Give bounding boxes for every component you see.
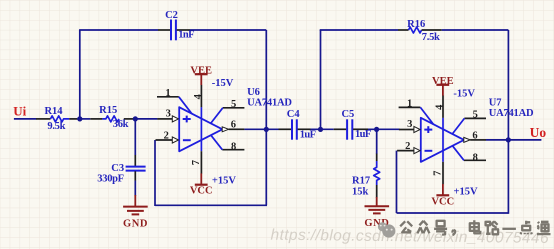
U7 pin 4 (V-) [442,95,444,117]
power VEE for U7 [432,76,454,96]
designator C2 [165,10,178,21]
op-amp U7 triangle body [421,118,464,162]
svg-text:+15V: +15V [212,176,236,187]
wire Ui to R14 [14,118,36,120]
wire U7 output to Uo [486,139,541,141]
wire feedback bottom [155,204,267,206]
svg-text:5: 5 [231,99,236,110]
pin number 8 [231,142,236,153]
svg-text:Ui: Ui [13,104,26,119]
capacitor C5 [334,119,368,139]
pin number 5 [473,109,478,120]
wire feedback vertical (C2/out/pin2 bus) [265,30,267,205]
wire feedback up to U6 pin2 [154,140,156,206]
value 1uF (C5) [355,129,371,140]
svg-text:3: 3 [407,119,412,130]
svg-text:+15V: +15V [454,186,478,197]
svg-text:-15V: -15V [453,89,475,100]
U6 pin 2 inverting input [156,137,179,143]
svg-text:GND: GND [123,218,148,229]
designator C5 [341,109,354,120]
wire node A up to C2 [79,30,81,119]
watermark url text [270,227,549,247]
junction node B (R15/C3 tap) [133,116,138,121]
U7 pin 6 output [464,137,486,142]
resistor R17 [374,154,380,198]
svg-text:1uF: 1uF [300,130,316,141]
svg-text:8: 8 [473,152,478,163]
value 9.5k [47,121,65,132]
svg-text:R14: R14 [44,106,63,117]
U7 pin 3 non-inverting input [399,126,420,132]
U6 pin 8 (NC) [211,135,245,150]
svg-text:2: 2 [164,130,169,141]
U7 pin 8 (NC) [453,146,487,161]
svg-text:1nF: 1nF [178,30,194,41]
label -15V [212,78,234,89]
ground GND (stage 2) [364,197,389,229]
svg-text:15k: 15k [352,187,369,198]
wire node B down to C3 [134,119,136,155]
svg-text:C5: C5 [341,109,354,120]
wire U6 pin6 to C4 [244,128,278,130]
U6 plus input marker [183,116,191,123]
pin number 5 [231,99,236,110]
wire C2 left [79,29,158,31]
svg-text:VCC: VCC [190,186,213,197]
U6 pin 7 (V+) [200,151,202,173]
U7 internal rail line (pins 4-7) [442,118,444,162]
wire R14 to R15 [77,118,90,120]
pin number 3 [166,109,171,120]
svg-text:36k: 36k [113,119,129,130]
pin number 2 [164,130,169,141]
value 15k [352,187,369,198]
designator C4 [287,109,301,120]
junction node E (R17 tap) [374,127,379,132]
svg-text:R16: R16 [407,19,425,30]
designator R16 [407,19,425,30]
svg-text:7: 7 [191,160,202,165]
watermark text dian-lu-yi-dian-tong (circuit one spot) [470,220,551,234]
label +15V [212,176,236,187]
pin number 6 [472,130,477,141]
pin number 1 [165,88,170,99]
value 7.5k [422,32,440,43]
svg-text:3: 3 [166,109,171,120]
svg-text:UA741AD: UA741AD [489,108,534,119]
power VCC for U7 [431,184,454,207]
label +15V [454,186,478,197]
wire U7 pin2 feedback left [396,151,398,213]
resistor R15 [90,116,133,122]
pin number 4 [435,104,446,110]
wire U7 feedback bottom [397,212,509,214]
U6 internal rail line (pins 4-7) [200,107,202,151]
svg-text:C4: C4 [287,109,301,120]
value 1nF [178,30,194,41]
svg-text:8: 8 [231,142,236,153]
power VCC for U6 [190,173,213,196]
U7 pin 7 (V+) [442,162,444,184]
U6 pin 5 (offset) [211,108,245,124]
pin number 6 [231,120,236,131]
wire C4 to C5 [311,128,334,130]
svg-text:VEE: VEE [190,65,212,76]
part type UA741AD (U6) [247,97,292,108]
wire node D up to R16 [320,30,322,129]
pin number 7 [191,160,202,165]
U6 pin 3 non-inverting input [157,116,178,122]
svg-text:6: 6 [231,120,236,131]
svg-text:R15: R15 [99,105,117,116]
label -15V [453,89,475,100]
svg-text:VCC: VCC [431,196,454,207]
net label Uo [530,125,547,140]
svg-text:VEE: VEE [432,76,454,87]
svg-text:330pF: 330pF [97,173,124,184]
capacitor C4 [279,119,311,139]
pin number 8 [473,152,478,163]
U6 pin 1 (offset) [157,97,192,114]
pin number 7 [433,171,444,176]
part type UA741AD (U7) [489,108,534,119]
svg-text:6: 6 [472,130,477,141]
svg-text:4: 4 [193,93,204,99]
ground GND (stage 1) [123,195,148,229]
svg-text:2: 2 [405,141,410,152]
svg-text:7: 7 [433,171,444,176]
svg-text:5: 5 [473,109,478,120]
wire R16 down to output node [507,30,509,140]
designator R14 [44,106,63,117]
power VEE for U6 [190,65,212,85]
U7 pin 5 (offset) [452,118,486,134]
value 1uF (C4) [300,130,316,141]
pin number 1 [407,99,412,110]
wire C3 to GND [134,181,136,196]
wire R16 right [442,29,509,31]
wire R15 to U6 pin3 [133,118,157,120]
pin number 2 [405,141,410,152]
svg-text:-15V: -15V [212,78,234,89]
pin number 3 [407,119,412,130]
pin number 4 [193,93,204,99]
U6 pin 6 output [222,127,244,132]
svg-text:1: 1 [407,99,412,110]
resistor R14 [36,116,77,122]
designator R17 [352,176,370,187]
designator C3 [111,163,124,174]
junction node F (U7 output) [506,137,511,142]
wire node E down to R17 [376,129,378,154]
junction node A (R14/R15/C2 tap) [77,116,82,121]
capacitor C3 [126,155,146,181]
wire feedback up to output node [507,140,509,214]
designator U7 [489,98,502,109]
designator R15 [99,105,117,116]
svg-text:7.5k: 7.5k [422,32,440,43]
U7 plus input marker [424,126,432,133]
svg-text:4: 4 [435,104,446,110]
U7 minus input marker [425,150,433,152]
junction node C (U6 output/feedback) [264,127,269,132]
net label Ui [13,104,26,119]
wire R16 left [320,29,398,31]
capacitor C2 [158,20,190,41]
resistor R16 [398,27,442,33]
svg-text:C3: C3 [111,163,124,174]
value 36k [113,119,129,130]
svg-text:1uF: 1uF [355,129,371,140]
wire C2 right to feedback node [190,29,266,31]
designator U6 [247,87,260,98]
U7 pin 1 (offset) [399,107,434,124]
watermark text gong-zhong-hao (public account) [400,221,455,235]
watermark logo disc [378,222,396,237]
svg-text:9.5k: 9.5k [47,121,65,132]
svg-text:1: 1 [165,88,170,99]
svg-text:R17: R17 [352,176,370,187]
U6 pin 4 (V-) [200,85,202,107]
junction node D (R16 tap) [318,127,323,132]
svg-text:C2: C2 [165,10,178,21]
U6 minus input marker [183,139,191,141]
value 330pF [97,173,124,184]
U7 pin 2 inverting input [397,148,420,154]
op-amp U6 triangle body [179,107,222,151]
wire C5 to U7 pin3 [368,128,400,130]
svg-text:UA741AD: UA741AD [247,97,292,108]
svg-text:Uo: Uo [530,125,547,140]
